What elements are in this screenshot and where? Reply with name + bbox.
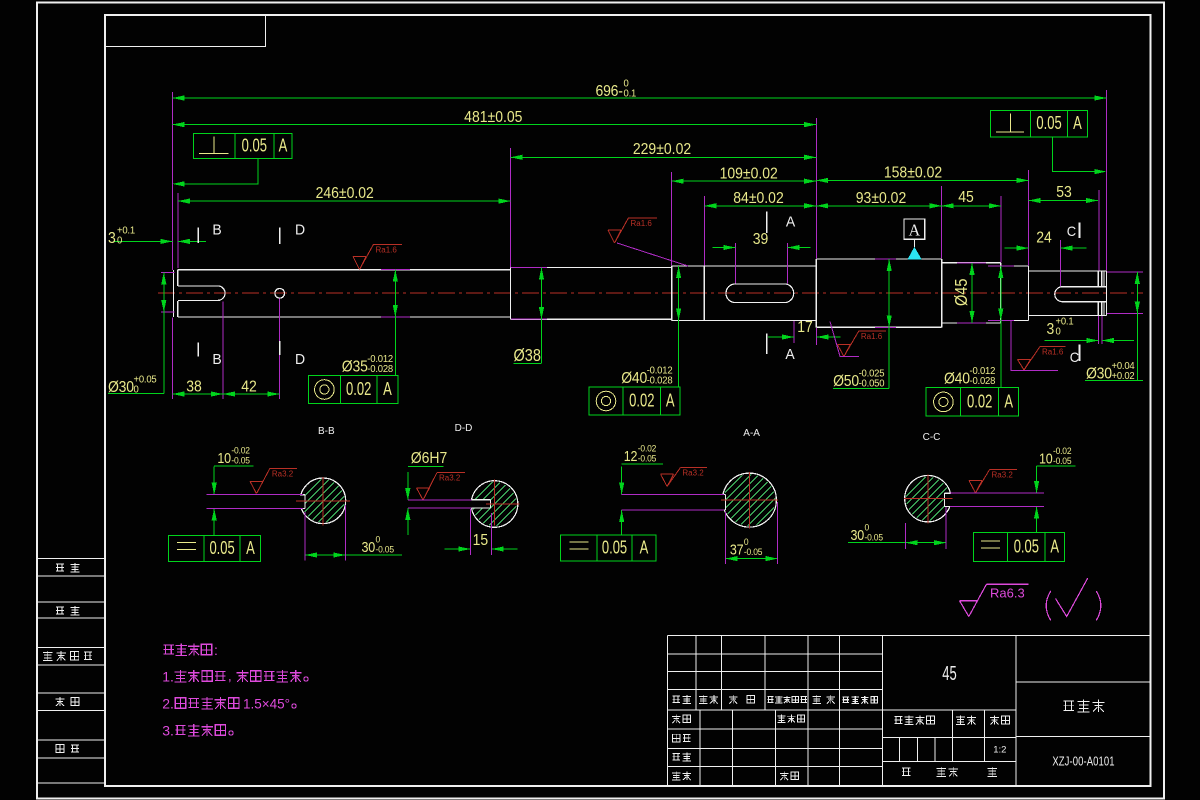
B-B surface Ra3.2: [250, 480, 263, 482]
title block grid: [667, 635, 669, 786]
svg-text:Ra1.6: Ra1.6: [376, 245, 398, 254]
D-D centerlines: [486, 503, 520, 505]
text 42: [241, 378, 257, 396]
svg-text:Ra3.2: Ra3.2: [272, 469, 294, 478]
svg-text:Ra1.6: Ra1.6: [631, 219, 653, 228]
svg-text:53: 53: [1056, 183, 1072, 201]
C-C dim 30: [906, 542, 946, 544]
leader top-right frame: [1052, 137, 1104, 172]
svg-text:,: ,: [228, 669, 232, 684]
B-B keyway width dim 10: [213, 467, 215, 495]
top-left accessory box: [105, 15, 266, 47]
material 45: [942, 662, 956, 685]
svg-text:-0.05: -0.05: [376, 544, 395, 554]
label 区: [747, 695, 755, 703]
tolerance frame perpendicularity top-right: [991, 110, 1088, 137]
dimension 42: [223, 393, 279, 395]
parentheses with check: [1046, 591, 1051, 621]
棱边倒钝: [175, 670, 187, 682]
svg-text:Ø35: Ø35: [342, 358, 368, 376]
label 批准: [780, 771, 789, 780]
text 93: [856, 189, 906, 207]
relief groove right: [1097, 271, 1099, 287]
svg-text:A: A: [909, 220, 921, 239]
svg-text:10: 10: [217, 450, 231, 466]
section mark D: [279, 227, 281, 244]
leader Ra1.6 second: [617, 243, 688, 266]
svg-text:A: A: [666, 390, 675, 411]
section view B-B: [318, 426, 335, 437]
tolerance frame concentricity phi40 second: [926, 388, 1019, 416]
svg-text:-0.02: -0.02: [638, 443, 657, 453]
shaft step phi45/phi40: [1000, 263, 1002, 323]
dim phi35: [394, 270, 396, 317]
section view D-D: [455, 423, 473, 434]
B-B parallelism frame: [169, 536, 261, 562]
svg-text:A: A: [383, 379, 392, 400]
D-D surface Ra3.2: [417, 487, 430, 489]
left label 校描: [56, 607, 64, 614]
dim phi40 second: [1000, 266, 1002, 321]
dimension 45: [942, 205, 1001, 207]
text 109: [720, 164, 778, 182]
text 17: [797, 318, 813, 336]
svg-text:0: 0: [744, 537, 749, 547]
label 阶段标记: [895, 717, 903, 724]
svg-text:Ø6H7: Ø6H7: [411, 449, 448, 467]
svg-text:A-A: A-A: [743, 428, 760, 439]
svg-text:Ra1.6: Ra1.6: [861, 332, 883, 341]
C-C parallelism frame: [973, 533, 1064, 562]
svg-text:0.05: 0.05: [1014, 536, 1039, 557]
dimension 3 left groove: [114, 240, 172, 242]
B-B keyway flat: [296, 495, 305, 508]
shaft segment phi40 first: [672, 265, 817, 267]
svg-text:246±0.02: 246±0.02: [316, 184, 374, 202]
shaft segment phi45: [942, 262, 1001, 264]
dimension 481: [172, 124, 816, 126]
svg-text:B: B: [212, 352, 221, 368]
svg-text:2.: 2.: [162, 696, 174, 712]
A-A parallelism frame: [561, 535, 657, 561]
label 更改文件号: [767, 697, 773, 703]
shaft segment phi30 right: [1029, 270, 1107, 272]
svg-text:A: A: [1004, 391, 1013, 412]
svg-text:37: 37: [730, 542, 744, 558]
extension lines: [171, 92, 173, 270]
B-B frame leader: [213, 508, 215, 535]
scale 1:2: [993, 745, 1006, 756]
C-C frame leader: [1036, 506, 1038, 532]
svg-text:10: 10: [1039, 451, 1053, 467]
svg-text:3.: 3.: [162, 723, 174, 739]
label 共: [902, 768, 910, 775]
svg-text:109±0.02: 109±0.02: [720, 164, 778, 182]
shaft step phi50/phi45: [941, 259, 943, 327]
svg-text:Ra3.2: Ra3.2: [682, 469, 704, 478]
技术要求: [164, 645, 174, 654]
svg-text:15: 15: [473, 531, 489, 549]
label 标准化: [777, 714, 785, 722]
svg-text:Ra6.3: Ra6.3: [990, 586, 1025, 601]
shaft segment phi50: [816, 258, 941, 260]
dim phi50: [888, 259, 890, 327]
label 校对: [672, 734, 680, 742]
svg-text:0: 0: [376, 534, 381, 544]
svg-text:0.1: 0.1: [624, 88, 637, 100]
text 24: [1036, 229, 1052, 247]
left label 底图总号: [43, 651, 52, 660]
A-A dim 37: [726, 558, 778, 560]
svg-text:45: 45: [958, 188, 974, 206]
tolerance frame perpendicularity top-left: [194, 133, 293, 158]
A-A surface Ra3.2: [661, 473, 674, 475]
dim phi38: [541, 267, 543, 319]
dimension 93: [816, 205, 941, 207]
dimension 53: [1029, 200, 1098, 202]
dim phi30 right: [1136, 272, 1138, 314]
dimension 39 keyway: [712, 247, 735, 249]
dim phi30 left: [163, 272, 165, 312]
left label 签字: [56, 697, 65, 706]
svg-text:Ra3.2: Ra3.2: [439, 474, 461, 483]
dim phi45 rotated: [971, 263, 973, 323]
drawing number: [1052, 755, 1114, 769]
text 84: [733, 189, 783, 207]
svg-text:Ø40: Ø40: [621, 369, 647, 387]
svg-text:-0.028: -0.028: [647, 375, 673, 387]
svg-text:Ø45: Ø45: [953, 279, 971, 306]
left label 描图: [56, 564, 64, 571]
A-A keyway width dim 12: [621, 467, 623, 495]
svg-text:D: D: [295, 222, 305, 238]
shaft segment phi38: [511, 266, 672, 268]
svg-text:3: 3: [1047, 320, 1055, 338]
svg-text:0.05: 0.05: [209, 538, 234, 559]
shaft centerline: [158, 292, 1143, 294]
text 39: [753, 230, 769, 248]
dim phi40 first: [678, 266, 680, 321]
svg-text:Ra1.6: Ra1.6: [1042, 348, 1064, 357]
section view A-A: [743, 428, 760, 439]
dimension 84: [704, 205, 816, 207]
label 工艺: [672, 771, 681, 780]
svg-text:0.05: 0.05: [1036, 113, 1061, 134]
svg-text:-0.028: -0.028: [367, 364, 393, 376]
label 分: [729, 695, 738, 704]
label 标记: [672, 696, 680, 703]
svg-text:B: B: [212, 222, 221, 238]
text 45: [958, 188, 974, 206]
svg-text:0.05: 0.05: [602, 537, 627, 558]
shaft step phi35/phi38: [510, 267, 512, 319]
keyway slot middle (closed): [726, 284, 794, 303]
svg-text:1.5×45°: 1.5×45°: [243, 697, 290, 712]
svg-text:-0.05: -0.05: [231, 455, 250, 465]
keyway slot right (open): [1062, 286, 1106, 288]
D-D hole: [468, 500, 491, 508]
shaft segment phi40 second: [1001, 265, 1029, 267]
left margin column cells: [37, 558, 105, 560]
A-A frame leader: [621, 510, 623, 535]
label 年月日: [842, 697, 849, 703]
svg-text:Ø50: Ø50: [833, 372, 859, 390]
keyway slot left (open): [178, 285, 218, 287]
表面去毛刺: [237, 670, 249, 682]
svg-text:C-C: C-C: [923, 432, 941, 443]
text 229: [633, 140, 691, 158]
dimension 38: [172, 393, 223, 395]
表面镀铬: [175, 725, 185, 734]
label 处数: [699, 695, 708, 704]
svg-text:30: 30: [362, 539, 376, 555]
Ra6.3 general surface symbol: [960, 600, 979, 602]
svg-text:481±0.05: 481±0.05: [464, 108, 522, 126]
label 重量: [956, 716, 965, 725]
section view C-C: [923, 432, 941, 443]
D-D hole dim phi6H7: [407, 472, 409, 500]
text 53: [1056, 183, 1072, 201]
svg-text:Ø38: Ø38: [514, 347, 541, 365]
A-A keyway flat: [719, 495, 726, 509]
svg-text:B-B: B-B: [318, 426, 335, 437]
shaft step phi38/phi40: [671, 266, 673, 321]
surface Ra1.6 fourth: [1018, 359, 1031, 361]
B-B dim 30: [305, 554, 345, 556]
dimension 246: [178, 200, 511, 202]
svg-text:45: 45: [942, 662, 956, 685]
svg-text:1:2: 1:2: [993, 745, 1006, 756]
tolerance frame concentricity phi35: [309, 376, 399, 404]
svg-text:-0.05: -0.05: [638, 453, 657, 463]
svg-text:0: 0: [117, 235, 123, 247]
svg-text:24: 24: [1036, 229, 1052, 247]
svg-text:84±0.02: 84±0.02: [733, 189, 783, 207]
svg-text:D: D: [295, 352, 305, 368]
svg-text:93±0.02: 93±0.02: [856, 189, 906, 207]
leader top-left frame: [174, 159, 258, 184]
right end chamfer and face: [1103, 271, 1105, 287]
section extension lines: [207, 494, 303, 496]
surface Ra1.6 first: [353, 256, 366, 258]
C-C centerlines: [904, 498, 953, 500]
B-B centerlines: [296, 500, 350, 502]
svg-text:-0.05: -0.05: [865, 532, 884, 542]
left label 日期: [56, 745, 64, 753]
text 158: [884, 164, 942, 182]
svg-text:A: A: [246, 538, 255, 559]
svg-text:-0.02: -0.02: [1053, 446, 1072, 456]
text 38: [186, 378, 202, 396]
section mark C: [1079, 223, 1081, 238]
datum A flag: [904, 219, 925, 239]
C-C surface Ra3.2: [969, 480, 982, 482]
svg-text:0.02: 0.02: [346, 379, 371, 400]
section mark A: [766, 212, 768, 233]
dimension 3 right groove: [1044, 340, 1098, 342]
shaft step phi40/phi30: [1028, 266, 1030, 321]
svg-text:-0.05: -0.05: [1053, 456, 1072, 466]
svg-text:A: A: [785, 347, 795, 363]
svg-text:229±0.02: 229±0.02: [633, 140, 691, 158]
svg-text:0.02: 0.02: [967, 391, 992, 412]
svg-text:12: 12: [624, 448, 638, 464]
svg-text:XZJ-00-A0101: XZJ-00-A0101: [1052, 755, 1114, 769]
surface Ra1.6 second: [608, 229, 621, 231]
dimension 24: [1005, 247, 1029, 249]
svg-text:C: C: [1067, 224, 1077, 239]
svg-text:Ø40: Ø40: [944, 370, 970, 388]
svg-text:Ra3.2: Ra3.2: [992, 471, 1014, 480]
dimension 158: [816, 179, 1028, 181]
svg-text:D-D: D-D: [455, 423, 473, 434]
dimension 696 top: [172, 97, 1106, 99]
svg-text:0.02: 0.02: [629, 390, 654, 411]
text 246: [316, 184, 374, 202]
dimension 229: [511, 156, 817, 158]
label 名: [826, 695, 835, 704]
D-D dim 15: [444, 548, 470, 550]
svg-text:30: 30: [851, 527, 865, 543]
svg-text:C: C: [1070, 350, 1080, 365]
svg-text::: :: [214, 642, 218, 658]
leader Ra1.6 third: [830, 322, 859, 357]
A-A centerlines: [721, 499, 778, 501]
label 张: [937, 767, 946, 776]
dimension 17: [768, 336, 794, 338]
tolerance frame concentricity phi40 first: [589, 387, 680, 415]
svg-text:A: A: [640, 537, 649, 558]
label 比例: [990, 716, 999, 725]
svg-text:696-: 696-: [596, 82, 623, 100]
svg-text:0.05: 0.05: [242, 135, 267, 156]
svg-text:A: A: [1073, 113, 1082, 134]
text 481: [464, 108, 522, 126]
dimension 109: [672, 180, 817, 182]
svg-text:0: 0: [1056, 326, 1062, 338]
label 设计: [672, 714, 681, 723]
label 签: [812, 695, 821, 704]
svg-text:-0.05: -0.05: [744, 547, 763, 557]
svg-text:-0.028: -0.028: [970, 376, 996, 388]
part name 从动轴: [1063, 701, 1074, 710]
leader Ra1.6 fourth: [1011, 321, 1058, 371]
C-C keyway flat right: [945, 494, 953, 506]
未注倒角为: [175, 698, 185, 708]
svg-text:38: 38: [186, 378, 202, 396]
svg-text:3: 3: [108, 229, 116, 247]
svg-text:A: A: [786, 214, 796, 230]
svg-text:A: A: [279, 135, 288, 156]
svg-text:1.: 1.: [162, 669, 174, 685]
svg-text:0: 0: [865, 522, 870, 532]
svg-text:17: 17: [797, 318, 813, 336]
section mark B: [197, 227, 199, 243]
shaft step phi40/phi50: [815, 259, 817, 327]
label 张: [988, 767, 997, 776]
svg-text:42: 42: [241, 378, 257, 396]
label 审核: [672, 753, 680, 760]
svg-text:-0.02: -0.02: [231, 445, 250, 455]
svg-text:158±0.02: 158±0.02: [884, 164, 942, 182]
hole phi6 on shaft: [275, 289, 285, 299]
label 第: [949, 767, 958, 776]
svg-text:A: A: [1050, 536, 1059, 557]
shaft outline segment phi35: [173, 270, 175, 317]
C-C keyway width dim 10: [1036, 466, 1038, 493]
surface Ra1.6 third: [837, 344, 850, 346]
